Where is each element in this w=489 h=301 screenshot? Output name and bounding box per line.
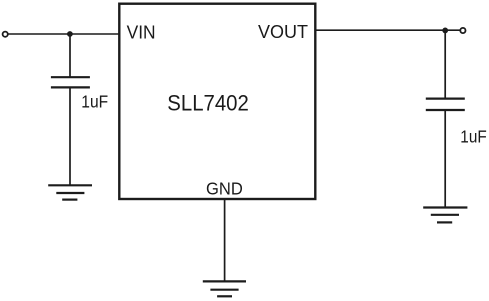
wire GND pin down <box>224 199 226 281</box>
svg-text:GND: GND <box>206 179 243 199</box>
ground (center) <box>203 281 246 296</box>
svg-text:1uF: 1uF <box>460 127 486 147</box>
capacitor C1 1uF <box>51 77 90 87</box>
svg-text:1uF: 1uF <box>81 91 108 111</box>
IC U1 SLL7402 <box>119 4 315 199</box>
output terminal <box>460 28 465 33</box>
wire C1 to ground <box>69 87 71 185</box>
wire VOUT pin to output <box>315 29 460 31</box>
svg-text:SLL7402: SLL7402 <box>167 90 249 115</box>
input terminal <box>3 32 8 37</box>
node VOUT junction <box>442 28 448 34</box>
svg-text:VOUT: VOUT <box>258 22 308 42</box>
wire input to VIN pin <box>8 33 119 35</box>
capacitor C2 1uF <box>426 99 465 110</box>
ground (right) <box>423 208 467 223</box>
node VIN junction <box>67 31 73 37</box>
ground (left) <box>48 185 92 199</box>
wire junction down to C2 <box>444 30 446 98</box>
svg-text:VIN: VIN <box>127 22 156 42</box>
wire C2 to ground <box>444 110 446 207</box>
wire junction down to C1 <box>69 34 71 77</box>
